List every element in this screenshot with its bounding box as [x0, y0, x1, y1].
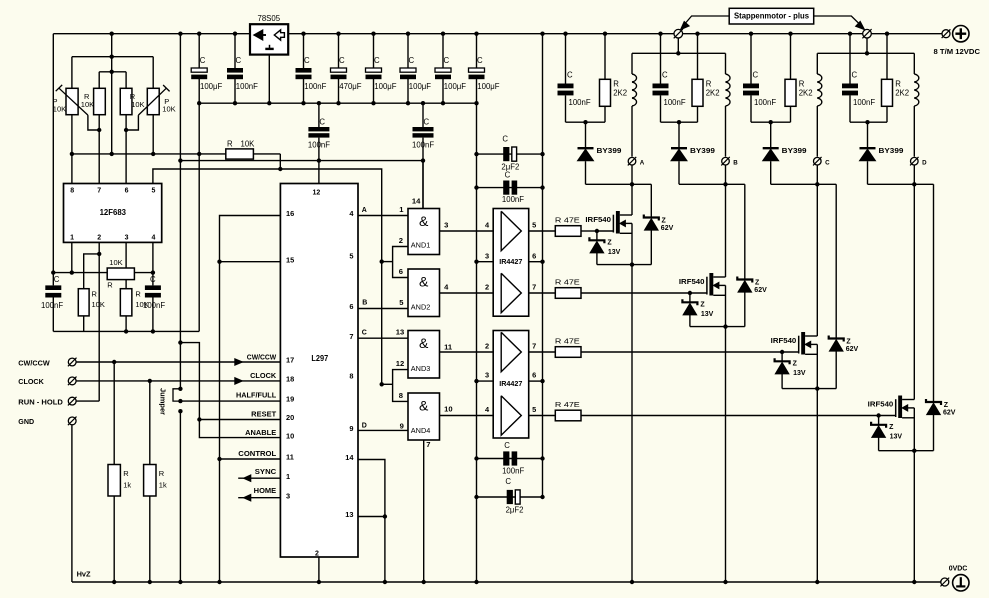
svg-text:3: 3: [125, 235, 129, 242]
svg-text:6: 6: [399, 267, 403, 276]
svg-text:7: 7: [532, 341, 536, 350]
svg-text:R: R: [135, 290, 141, 299]
svg-text:C: C: [374, 56, 380, 65]
svg-text:R: R: [159, 469, 165, 478]
svg-text:6: 6: [349, 302, 353, 311]
svg-text:1k: 1k: [159, 481, 167, 490]
svg-text:Z: Z: [755, 280, 760, 287]
svg-text:2: 2: [485, 282, 489, 291]
svg-text:5: 5: [532, 405, 536, 414]
svg-text:100nF: 100nF: [304, 82, 326, 91]
svg-text:7: 7: [532, 282, 536, 291]
svg-text:C: C: [339, 56, 345, 65]
svg-text:CONTROL: CONTROL: [238, 451, 277, 458]
svg-text:CLOCK: CLOCK: [18, 379, 44, 386]
svg-text:SYNC: SYNC: [255, 469, 276, 476]
svg-text:R: R: [107, 281, 113, 290]
svg-text:BY399: BY399: [879, 148, 904, 155]
svg-text:IRF540: IRF540: [771, 338, 797, 345]
svg-text:14: 14: [345, 453, 354, 462]
svg-text:100nF: 100nF: [41, 301, 63, 310]
svg-text:10K: 10K: [81, 100, 94, 109]
svg-text:R: R: [706, 79, 712, 88]
svg-text:C: C: [362, 329, 367, 336]
svg-text:AND3: AND3: [411, 364, 431, 373]
svg-text:7: 7: [97, 187, 101, 194]
svg-text:4: 4: [151, 235, 155, 242]
svg-text:BY399: BY399: [597, 148, 622, 155]
svg-text:8 T/M 12VDC: 8 T/M 12VDC: [934, 47, 981, 56]
svg-text:C: C: [662, 70, 668, 79]
svg-text:100nF: 100nF: [569, 98, 591, 107]
svg-text:&: &: [419, 273, 429, 289]
svg-text:7: 7: [426, 440, 430, 449]
svg-text:2: 2: [399, 236, 403, 245]
svg-text:8: 8: [399, 391, 403, 400]
svg-text:CW/CCW: CW/CCW: [247, 354, 277, 361]
svg-text:Stappenmotor - plus: Stappenmotor - plus: [734, 12, 810, 21]
svg-text:2K2: 2K2: [613, 89, 627, 98]
svg-text:&: &: [419, 397, 429, 413]
svg-text:C: C: [504, 441, 510, 450]
svg-text:&: &: [419, 335, 429, 351]
svg-text:9: 9: [400, 421, 404, 430]
svg-text:10K: 10K: [131, 100, 144, 109]
svg-text:100μF: 100μF: [444, 82, 467, 91]
svg-text:HvZ: HvZ: [77, 569, 91, 578]
svg-text:C: C: [150, 275, 156, 284]
svg-text:2K2: 2K2: [706, 89, 720, 98]
svg-text:CLOCK: CLOCK: [250, 373, 276, 380]
svg-text:C: C: [424, 118, 430, 127]
svg-text:2K2: 2K2: [895, 89, 909, 98]
svg-text:1: 1: [286, 472, 290, 481]
svg-text:100μF: 100μF: [477, 82, 500, 91]
svg-text:IRF540: IRF540: [585, 217, 611, 224]
svg-text:10K: 10K: [135, 300, 148, 309]
svg-text:13: 13: [396, 328, 404, 337]
svg-text:C: C: [852, 70, 858, 79]
svg-text:16: 16: [286, 209, 294, 218]
svg-text:C: C: [502, 134, 508, 143]
svg-text:62V: 62V: [661, 225, 674, 232]
svg-text:8: 8: [70, 187, 74, 194]
svg-text:100nF: 100nF: [853, 98, 875, 107]
svg-text:R: R: [895, 79, 901, 88]
svg-text:C: C: [54, 275, 60, 284]
svg-text:C: C: [753, 70, 759, 79]
svg-text:100nF: 100nF: [502, 467, 524, 476]
svg-text:100μF: 100μF: [374, 82, 397, 91]
svg-text:10K: 10K: [241, 139, 256, 148]
svg-text:L297: L297: [311, 354, 328, 363]
svg-text:2: 2: [485, 341, 489, 350]
svg-text:Jumper: Jumper: [158, 388, 167, 415]
svg-text:GND: GND: [18, 419, 34, 426]
svg-text:100μF: 100μF: [200, 82, 223, 91]
svg-text:1k: 1k: [123, 481, 131, 490]
svg-text:C: C: [319, 118, 325, 127]
svg-text:2: 2: [97, 235, 101, 242]
svg-text:3: 3: [286, 491, 290, 500]
svg-text:C: C: [825, 160, 830, 167]
svg-text:Z: Z: [793, 361, 798, 368]
svg-text:BY399: BY399: [782, 148, 807, 155]
svg-text:R 47E: R 47E: [555, 216, 580, 225]
svg-text:Z: Z: [700, 302, 705, 309]
svg-text:10K: 10K: [92, 300, 105, 309]
svg-text:C: C: [409, 56, 415, 65]
svg-text:2: 2: [315, 551, 319, 558]
svg-text:13V: 13V: [701, 311, 714, 318]
svg-text:AND4: AND4: [411, 426, 431, 435]
svg-text:10: 10: [286, 431, 294, 440]
svg-text:3: 3: [485, 251, 489, 260]
svg-text:IRF540: IRF540: [868, 402, 894, 409]
svg-text:15: 15: [286, 255, 294, 264]
svg-text:0VDC: 0VDC: [949, 565, 968, 572]
svg-text:62V: 62V: [943, 410, 956, 417]
svg-text:10: 10: [444, 404, 452, 413]
svg-text:BY399: BY399: [690, 148, 715, 155]
svg-text:C: C: [236, 56, 242, 65]
svg-text:100nF: 100nF: [664, 98, 686, 107]
svg-text:C: C: [567, 70, 573, 79]
svg-text:12: 12: [313, 190, 321, 197]
svg-text:R: R: [799, 79, 805, 88]
svg-text:18: 18: [286, 375, 294, 384]
svg-text:IR4427: IR4427: [499, 379, 522, 388]
svg-text:R 47E: R 47E: [555, 278, 580, 287]
svg-text:3: 3: [485, 371, 489, 380]
svg-text:13V: 13V: [608, 249, 621, 256]
svg-text:78S05: 78S05: [258, 14, 281, 23]
svg-text:IR4427: IR4427: [499, 257, 522, 266]
svg-text:13: 13: [345, 510, 353, 519]
svg-text:AND1: AND1: [411, 241, 431, 250]
svg-text:AND2: AND2: [411, 303, 431, 312]
svg-text:13V: 13V: [890, 433, 903, 440]
svg-text:HOME: HOME: [254, 488, 277, 495]
svg-text:C: C: [200, 56, 206, 65]
svg-text:D: D: [922, 160, 927, 167]
svg-text:C: C: [444, 56, 450, 65]
svg-text:2μF2: 2μF2: [506, 506, 524, 515]
svg-text:CW/CCW: CW/CCW: [18, 360, 50, 367]
svg-text:ANABLE: ANABLE: [245, 430, 276, 437]
svg-text:11: 11: [286, 453, 294, 462]
svg-text:HALF/FULL: HALF/FULL: [236, 393, 277, 400]
svg-text:IRF540: IRF540: [679, 279, 705, 286]
svg-text:A: A: [640, 160, 645, 167]
svg-text:8: 8: [349, 372, 353, 381]
svg-text:Z: Z: [944, 402, 949, 409]
svg-text:B: B: [362, 300, 367, 307]
svg-text:62V: 62V: [754, 287, 767, 294]
svg-text:B: B: [733, 160, 738, 167]
svg-text:9: 9: [349, 424, 353, 433]
svg-text:R 47E: R 47E: [555, 400, 580, 409]
svg-text:Z: Z: [846, 339, 851, 346]
svg-text:RESET: RESET: [251, 412, 277, 419]
svg-text:1: 1: [70, 235, 74, 242]
svg-text:14: 14: [412, 197, 421, 206]
svg-text:C: C: [477, 56, 483, 65]
svg-text:C: C: [505, 477, 511, 486]
svg-text:62V: 62V: [846, 346, 859, 353]
svg-text:Z: Z: [607, 240, 612, 247]
svg-text:Z: Z: [662, 218, 667, 225]
svg-text:17: 17: [286, 356, 294, 365]
svg-text:100nF: 100nF: [754, 98, 776, 107]
svg-text:5: 5: [532, 220, 536, 229]
svg-text:R: R: [613, 79, 619, 88]
svg-text:11: 11: [444, 343, 453, 352]
svg-text:6: 6: [532, 251, 536, 260]
svg-text:&: &: [419, 213, 429, 229]
svg-text:470μF: 470μF: [339, 82, 362, 91]
svg-text:12F683: 12F683: [100, 208, 127, 217]
svg-text:R: R: [92, 290, 98, 299]
svg-text:7: 7: [349, 332, 353, 341]
svg-text:A: A: [362, 207, 367, 214]
svg-text:12: 12: [396, 359, 404, 368]
svg-text:C: C: [304, 56, 310, 65]
svg-text:6: 6: [532, 371, 536, 380]
svg-text:Z: Z: [889, 424, 894, 431]
svg-text:5: 5: [151, 187, 155, 194]
svg-text:19: 19: [286, 394, 294, 403]
svg-text:2K2: 2K2: [799, 89, 813, 98]
svg-text:R 47E: R 47E: [555, 337, 580, 346]
svg-text:6: 6: [125, 187, 129, 194]
svg-text:10K: 10K: [53, 104, 66, 113]
svg-text:100μF: 100μF: [409, 82, 432, 91]
svg-text:100nF: 100nF: [502, 195, 524, 204]
svg-text:R: R: [227, 139, 233, 148]
svg-text:C: C: [505, 171, 511, 180]
svg-text:10K: 10K: [109, 258, 122, 267]
svg-text:5: 5: [349, 251, 353, 260]
svg-text:RUN - HOLD: RUN - HOLD: [18, 399, 63, 406]
svg-text:3: 3: [444, 221, 448, 230]
svg-text:13V: 13V: [793, 370, 806, 377]
svg-text:20: 20: [286, 413, 294, 422]
svg-text:R: R: [123, 469, 129, 478]
svg-text:10K: 10K: [162, 104, 175, 113]
svg-text:D: D: [362, 422, 367, 429]
svg-text:100nF: 100nF: [236, 82, 258, 91]
